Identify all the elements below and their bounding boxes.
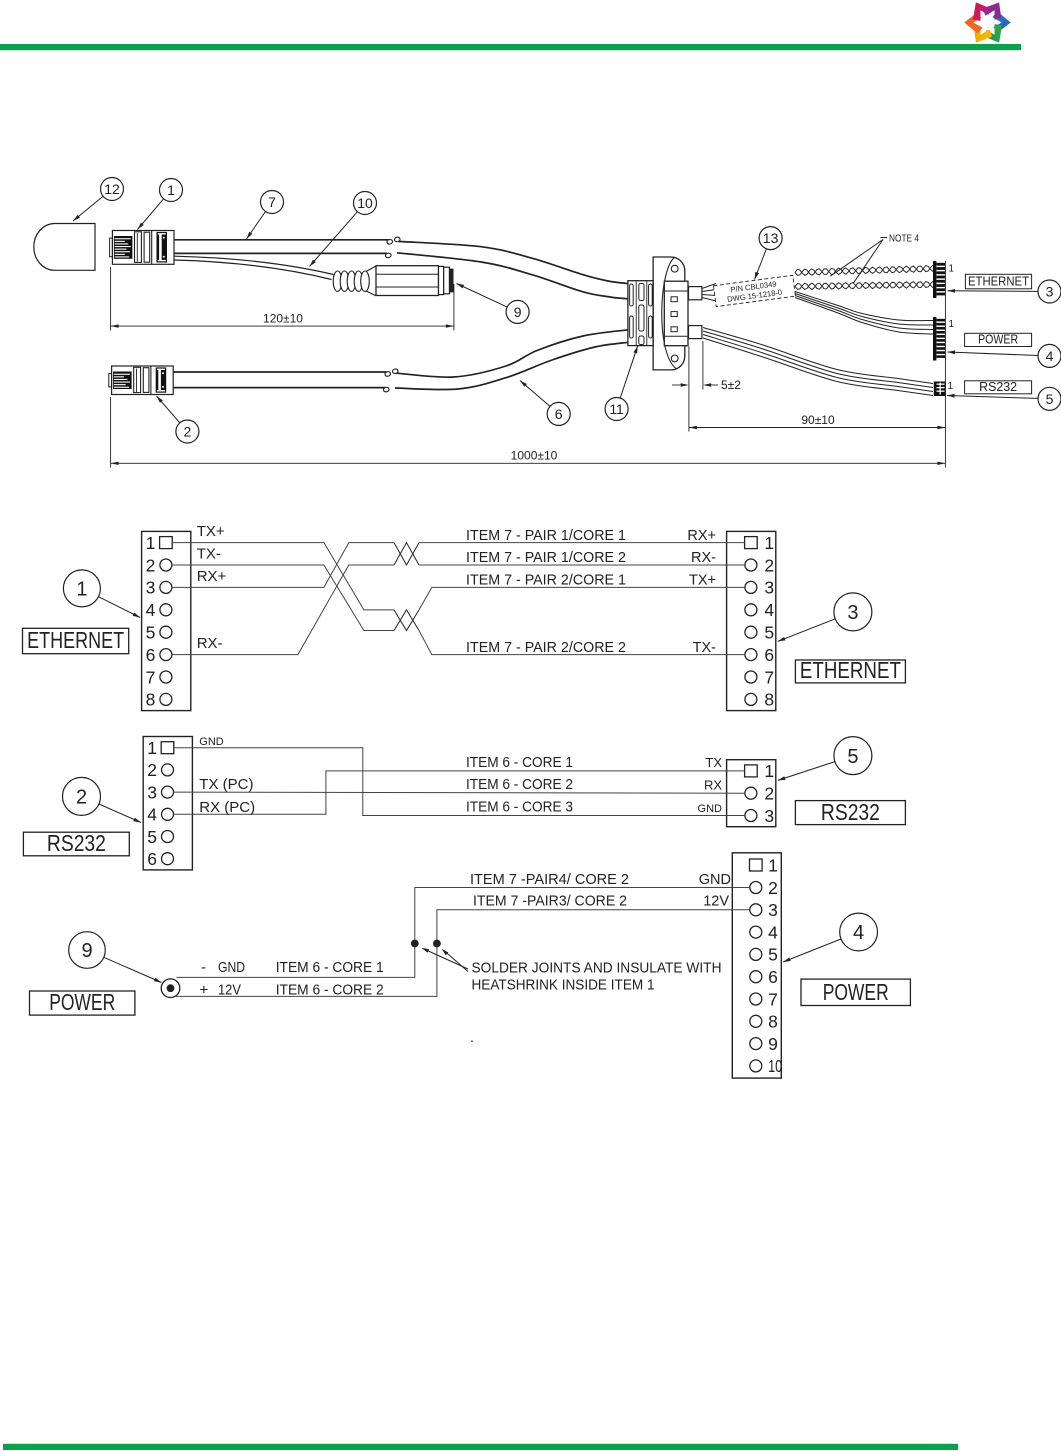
svg-text:7: 7 xyxy=(146,667,156,687)
balloon 10 xyxy=(354,192,377,215)
svg-text:ITEM 7 -PAIR3/ CORE 2: ITEM 7 -PAIR3/ CORE 2 xyxy=(473,894,627,910)
cable item 6 curving to clamp xyxy=(397,330,629,377)
wire GND core3 xyxy=(174,748,745,816)
svg-text:GND: GND xyxy=(218,960,245,976)
twisted pair symbol pair2 xyxy=(394,610,419,631)
svg-text:1: 1 xyxy=(949,319,955,330)
flange screw hole bottom xyxy=(671,355,678,362)
svg-text:4: 4 xyxy=(768,922,778,942)
balloon 2 wiring xyxy=(63,777,101,815)
power plug connector item 4 symbol xyxy=(933,317,936,361)
balloon 2 xyxy=(176,420,199,443)
svg-text:3: 3 xyxy=(764,578,774,598)
svg-text:1: 1 xyxy=(76,579,87,601)
twisted pair symbol pair1 xyxy=(394,543,419,565)
svg-text:1: 1 xyxy=(948,381,954,392)
svg-text:1: 1 xyxy=(764,761,774,781)
svg-text:-: - xyxy=(201,959,206,976)
svg-text:1000±10: 1000±10 xyxy=(511,449,558,463)
NOTE 4 leader xyxy=(881,237,888,239)
svg-text:120±10: 120±10 xyxy=(263,311,303,325)
cable exit stub top xyxy=(689,287,702,300)
svg-text:8: 8 xyxy=(764,690,774,710)
connector 4 power box xyxy=(732,853,781,1078)
wire pair1 core2 to right pin2 xyxy=(419,564,745,566)
svg-text:ITEM 6 - CORE 2: ITEM 6 - CORE 2 xyxy=(276,983,384,999)
svg-text:RX-: RX- xyxy=(197,635,223,652)
svg-text:8: 8 xyxy=(146,690,156,710)
wire TX core2 xyxy=(174,792,745,793)
barrel connector item 9 xyxy=(366,266,376,296)
cable exit stub bottom xyxy=(689,326,702,339)
balloon 1 xyxy=(160,179,183,202)
svg-text:1: 1 xyxy=(146,533,156,553)
svg-text:ITEM 7 - PAIR 1/CORE 2: ITEM 7 - PAIR 1/CORE 2 xyxy=(466,550,626,566)
svg-text:6: 6 xyxy=(768,967,778,987)
connector 3 ethernet right box xyxy=(727,531,776,710)
RJ45 connector item 1 (top) xyxy=(112,231,174,265)
svg-text:7: 7 xyxy=(768,989,778,1009)
D-sub housing body xyxy=(664,281,688,346)
strain relief spring item 10 xyxy=(333,271,342,291)
svg-text:2: 2 xyxy=(184,424,192,440)
svg-text:9: 9 xyxy=(81,940,92,962)
label box POWER left xyxy=(30,991,135,1015)
svg-text:POWER: POWER xyxy=(978,332,1018,347)
svg-text:NOTE 4: NOTE 4 xyxy=(889,234,919,245)
svg-text:5: 5 xyxy=(768,945,778,965)
svg-text:5: 5 xyxy=(847,746,858,768)
svg-text:ITEM 7 - PAIR 2/CORE 2: ITEM 7 - PAIR 2/CORE 2 xyxy=(466,640,626,656)
svg-text:HEATSHRINK INSIDE ITEM 1: HEATSHRINK INSIDE ITEM 1 xyxy=(472,978,655,994)
svg-text:1: 1 xyxy=(147,738,157,758)
svg-text:4: 4 xyxy=(764,600,774,620)
svg-text:ITEM 7 - PAIR 1/CORE 1: ITEM 7 - PAIR 1/CORE 1 xyxy=(466,528,626,544)
connector 1 ethernet left box xyxy=(142,531,191,710)
svg-text:TX (PC): TX (PC) xyxy=(199,776,253,793)
wire RX core1 xyxy=(174,771,745,814)
svg-text:4: 4 xyxy=(853,922,864,944)
svg-text:GND: GND xyxy=(199,736,224,748)
svg-text:POWER: POWER xyxy=(823,979,889,1005)
wire pair2 core1 to right pin3 xyxy=(419,587,745,610)
svg-text:10: 10 xyxy=(357,195,373,211)
svg-text:ITEM 7 - PAIR 2/CORE 1: ITEM 7 - PAIR 2/CORE 1 xyxy=(466,573,626,589)
power jack item 9 symbol xyxy=(161,979,180,998)
svg-text:6: 6 xyxy=(146,645,156,665)
wire pair1 core1 to right pin1 xyxy=(419,542,745,544)
label tag item 13 xyxy=(713,275,795,306)
balloon 4 xyxy=(1038,344,1061,367)
svg-text:11: 11 xyxy=(609,401,624,417)
svg-text:2: 2 xyxy=(146,555,156,575)
label box ETHERNET (top) xyxy=(965,274,1031,289)
svg-text:12V: 12V xyxy=(703,894,729,910)
cable clamp item 11 body xyxy=(628,281,653,346)
dimension 90±10 xyxy=(689,427,946,429)
svg-text:3: 3 xyxy=(768,900,778,920)
svg-text:ITEM 6 - CORE 1: ITEM 6 - CORE 1 xyxy=(276,960,384,976)
svg-text:3: 3 xyxy=(147,782,157,802)
wire TX+ from left pin1 xyxy=(172,543,394,610)
svg-text:5: 5 xyxy=(764,623,774,643)
svg-text:12: 12 xyxy=(104,181,120,197)
svg-text:ETHERNET: ETHERNET xyxy=(800,657,901,683)
connector 2 rs232 left box xyxy=(143,737,192,870)
svg-text:4: 4 xyxy=(146,600,156,620)
thin power cable to barrel jack xyxy=(175,256,334,274)
svg-text:SOLDER JOINTS AND INSULATE WIT: SOLDER JOINTS AND INSULATE WITH xyxy=(472,961,722,977)
svg-text:5: 5 xyxy=(147,827,157,847)
svg-text:13: 13 xyxy=(763,230,779,246)
svg-text:+: + xyxy=(200,982,209,999)
balloon 5 xyxy=(1038,387,1061,410)
dimension 120±10 xyxy=(111,325,454,327)
cable break symbol lower xyxy=(385,372,390,377)
svg-text:GND: GND xyxy=(699,872,731,888)
svg-text:7: 7 xyxy=(764,667,774,687)
svg-text:GND: GND xyxy=(698,803,723,815)
svg-text:ETHERNET: ETHERNET xyxy=(27,627,124,653)
bottom green bar xyxy=(3,1444,958,1450)
twisted pair 1 to ethernet connector xyxy=(795,266,933,276)
solder joint 1 xyxy=(411,940,419,948)
svg-text:RS232: RS232 xyxy=(979,379,1017,394)
svg-text:6: 6 xyxy=(764,645,774,665)
RJ45 connector item 2 (bottom) xyxy=(112,366,174,395)
svg-text:5: 5 xyxy=(146,623,156,643)
svg-text:2: 2 xyxy=(147,760,157,780)
svg-text:90±10: 90±10 xyxy=(801,413,835,427)
balloon 6 xyxy=(547,402,570,425)
cable item 7 upper segment xyxy=(174,239,389,241)
boot cap item 12 xyxy=(34,224,95,271)
balloon 9 xyxy=(506,300,529,323)
label box POWER right xyxy=(801,979,910,1005)
label box RS232 left xyxy=(23,832,129,856)
svg-text:12V: 12V xyxy=(218,983,241,999)
balloon 7 xyxy=(261,191,284,214)
svg-text:TX-: TX- xyxy=(693,640,717,656)
svg-text:2: 2 xyxy=(768,878,778,898)
label box ETHERNET right xyxy=(795,660,905,683)
balloon 12 xyxy=(101,178,124,201)
ethernet plug connector item 3 symbol xyxy=(933,261,936,298)
svg-text:TX-: TX- xyxy=(197,546,221,563)
svg-text:ITEM 6 - CORE 1: ITEM 6 - CORE 1 xyxy=(466,755,573,771)
wire TX- from left pin2 xyxy=(172,565,394,631)
svg-text:8: 8 xyxy=(768,1012,778,1032)
cable item 6 lower segment xyxy=(173,371,386,373)
balloon 3 xyxy=(1038,280,1061,303)
logo colorful ribbon star xyxy=(964,0,1010,48)
rs232 plug connector item 5 symbol xyxy=(934,382,946,397)
svg-text:9: 9 xyxy=(768,1034,778,1054)
svg-text:RX-: RX- xyxy=(691,550,716,566)
svg-text:3: 3 xyxy=(847,602,858,624)
svg-text:TX: TX xyxy=(705,755,722,770)
solder note leaders xyxy=(425,950,468,970)
balloon 13 xyxy=(759,227,782,250)
connector 5 rs232 right box xyxy=(727,760,776,827)
svg-text:ITEM 7 -PAIR4/ CORE 2: ITEM 7 -PAIR4/ CORE 2 xyxy=(470,872,629,888)
svg-text:9: 9 xyxy=(514,304,522,320)
svg-text:10: 10 xyxy=(768,1056,782,1076)
balloon 4 wiring xyxy=(840,913,878,951)
balloon 3 wiring xyxy=(834,593,872,631)
svg-text:TX+: TX+ xyxy=(197,523,225,540)
svg-text:2: 2 xyxy=(764,555,774,575)
svg-text:6: 6 xyxy=(555,406,563,422)
label box ETHERNET left xyxy=(23,628,129,653)
cable break symbol upper xyxy=(387,240,392,245)
svg-text:.: . xyxy=(470,1029,474,1045)
balloon 1 wiring xyxy=(63,570,100,607)
cable item 7 curving to clamp xyxy=(399,241,629,283)
extension lines xyxy=(110,267,112,331)
label box RS232 (top) xyxy=(965,381,1032,394)
svg-text:RX: RX xyxy=(704,778,722,793)
svg-text:3: 3 xyxy=(1046,284,1054,300)
svg-text:POWER: POWER xyxy=(49,989,115,1015)
dimension 1000±10 xyxy=(111,462,946,464)
balloon 9 wiring xyxy=(69,932,106,969)
svg-text:ITEM 6 - CORE 3: ITEM 6 - CORE 3 xyxy=(466,800,573,816)
wire bundle to power connector xyxy=(795,292,933,321)
svg-text:ITEM 6 - CORE 2: ITEM 6 - CORE 2 xyxy=(466,777,573,793)
wire RX+ from left pin3 xyxy=(172,543,394,588)
wire pair2 core2 to right pin6 xyxy=(419,631,745,655)
svg-text:6: 6 xyxy=(147,849,157,869)
label box POWER (top) xyxy=(965,333,1032,346)
svg-text:3: 3 xyxy=(764,806,774,826)
svg-text:ETHERNET: ETHERNET xyxy=(968,274,1029,289)
flange plate xyxy=(653,257,685,370)
svg-text:RS232: RS232 xyxy=(821,799,880,825)
svg-text:2: 2 xyxy=(764,784,774,804)
balloon 5 wiring xyxy=(834,737,872,775)
dimension 5±2 xyxy=(672,384,685,386)
svg-text:RX+: RX+ xyxy=(197,568,227,585)
top green bar xyxy=(0,44,1021,50)
twisted pair 2 to ethernet connector xyxy=(795,282,933,290)
solder joint 2 xyxy=(433,940,441,948)
svg-text:1: 1 xyxy=(764,533,774,553)
svg-text:7: 7 xyxy=(268,194,276,210)
svg-text:2: 2 xyxy=(76,787,87,809)
wires stub to label tag xyxy=(702,284,716,302)
svg-text:1: 1 xyxy=(768,855,778,875)
svg-text:1: 1 xyxy=(167,182,175,198)
wire +12V item6 core2 xyxy=(176,910,750,997)
wire GND item6 core1 xyxy=(177,888,750,978)
flange screw hole top xyxy=(671,265,678,272)
svg-text:3: 3 xyxy=(146,578,156,598)
svg-text:TX+: TX+ xyxy=(689,573,716,589)
wire bundle to rs232 connector xyxy=(703,328,933,384)
svg-text:RX (PC): RX (PC) xyxy=(199,799,255,816)
svg-text:5: 5 xyxy=(1046,391,1054,407)
label box RS232 right xyxy=(795,801,905,825)
svg-text:5±2: 5±2 xyxy=(721,378,741,392)
svg-text:RX+: RX+ xyxy=(687,528,716,544)
svg-text:RS232: RS232 xyxy=(47,830,106,856)
svg-text:4: 4 xyxy=(147,805,157,825)
balloon 11 xyxy=(605,398,628,421)
svg-text:1: 1 xyxy=(949,264,955,275)
svg-text:4: 4 xyxy=(1046,348,1054,364)
wire RX- from left pin6 xyxy=(172,565,394,655)
